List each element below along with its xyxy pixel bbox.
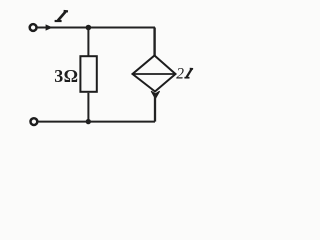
dependent source middle bar (133, 73, 176, 75)
terminal top-left (30, 24, 37, 31)
svg-text:2: 2 (176, 65, 184, 82)
wire top rail (37, 27, 155, 29)
wire resistor top lead (87, 28, 89, 57)
dependent source U1 diamond (133, 56, 176, 92)
wire bottom rail (38, 121, 155, 123)
node junction top (86, 25, 92, 31)
dependent source arrowhead (151, 91, 159, 98)
wire right branch top (153, 28, 155, 56)
wire right branch bottom (154, 95, 156, 122)
node junction bottom (86, 119, 91, 124)
terminal bottom-left (31, 118, 38, 125)
svg-text:3Ω: 3Ω (54, 66, 78, 86)
wire resistor bottom lead (87, 93, 89, 122)
current arrow I (46, 24, 53, 30)
resistor R 3ohm body (80, 56, 96, 92)
label I (55, 11, 68, 21)
